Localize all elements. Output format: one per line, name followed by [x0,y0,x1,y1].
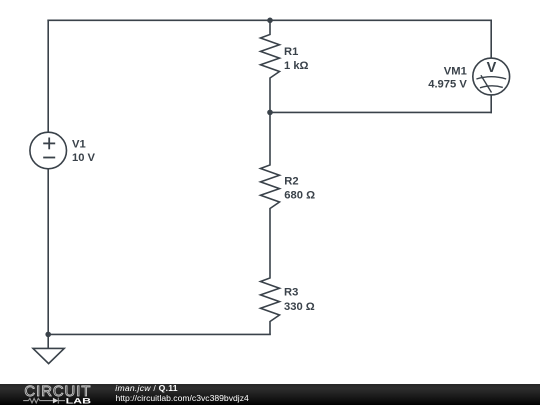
svg-text:1 kΩ: 1 kΩ [284,60,309,72]
svg-text:10 V: 10 V [72,152,96,164]
svg-text:VM1: VM1 [444,65,467,77]
svg-text:R1: R1 [284,46,298,58]
svg-text:R3: R3 [284,287,298,299]
svg-text:330 Ω: 330 Ω [284,301,315,313]
svg-text:R2: R2 [284,176,298,188]
svg-text:680 Ω: 680 Ω [284,190,315,202]
svg-text:4.975 V: 4.975 V [428,79,467,91]
svg-text:LAB: LAB [66,396,92,405]
svg-text:V: V [487,60,497,76]
svg-text:V1: V1 [72,139,86,151]
